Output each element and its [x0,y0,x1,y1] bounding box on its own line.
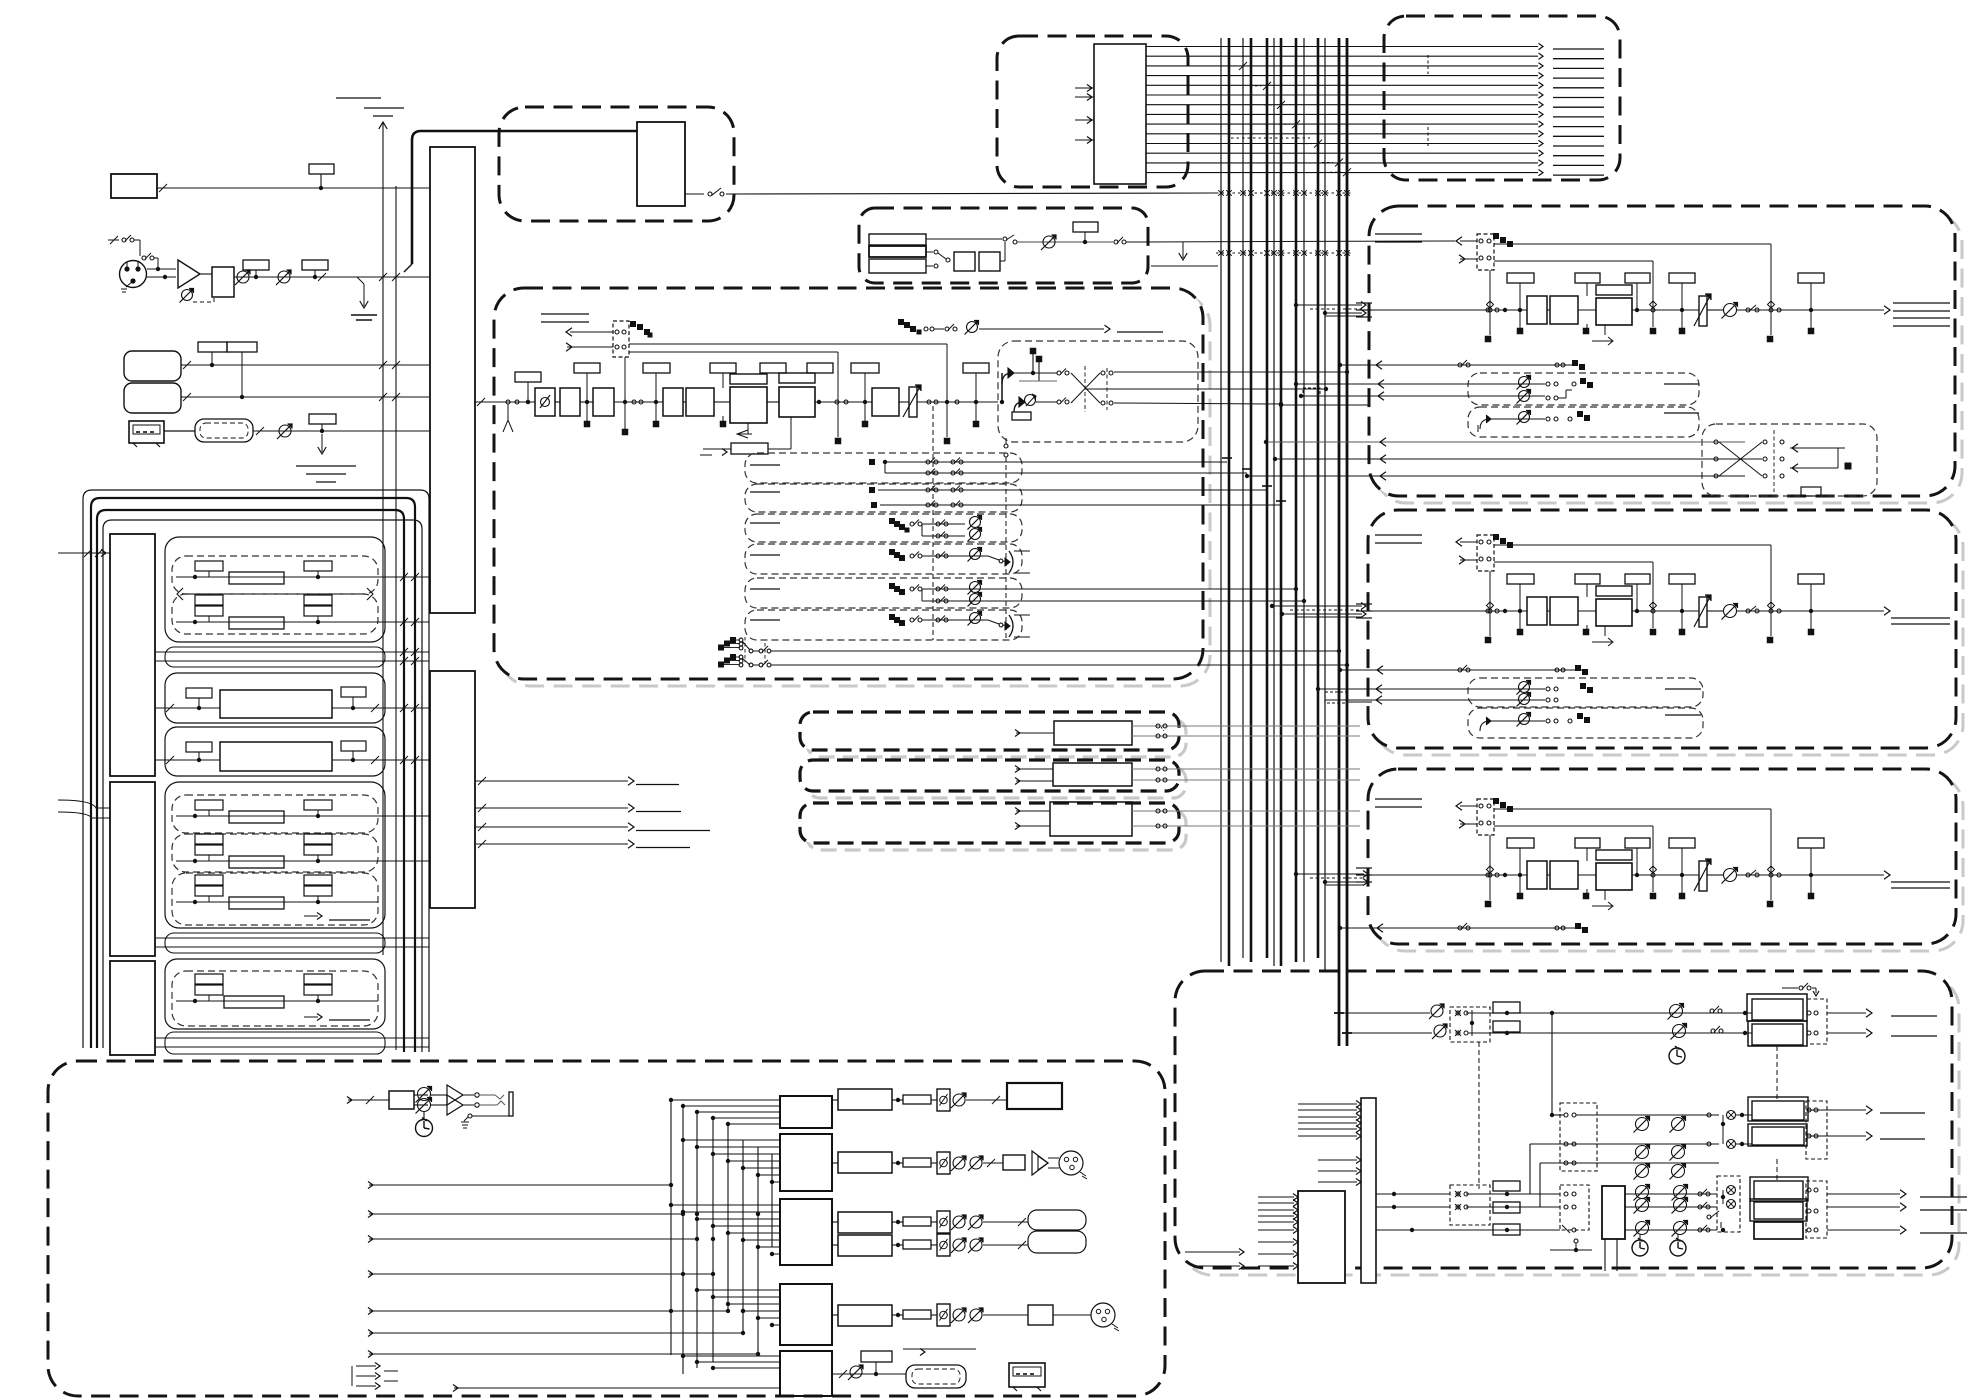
wire: thick feed to input module [412,131,637,264]
master: out sel dashed [1717,1176,1740,1232]
strip2: input stubs [1356,603,1372,605]
wire+pot: gain [234,276,430,278]
block: line input connector (top-left) [111,174,157,198]
strip1: out arrow [1884,306,1890,314]
strip2: post junction [1767,637,1774,644]
master: switch cluster dashed [1450,1007,1490,1042]
bus dotted mark 2 [1231,137,1310,139]
switch box SW1 above line [309,164,334,174]
block group: channel input module (top-left) [499,107,734,221]
strip1 aux dashed box B [1468,407,1699,437]
strip2: insert send arrow [1460,541,1477,543]
strip1 input wires from bus [1296,304,1362,306]
strip3: level pot [1724,869,1737,882]
strip3: value box 3 [1625,838,1650,848]
master: mon wire 2 [1530,1143,1719,1145]
wire loop C (thick) [97,510,404,1052]
strip2: EQ feedback [1604,626,1606,636]
strip2: chain wire [1372,610,1527,612]
strip2: value box 5 [1798,574,1824,584]
strip3: chain wire [1372,874,1527,876]
strip1 aux dashed box A [1468,373,1699,405]
pan wire B [1036,401,1057,403]
bus tap row A [1216,192,1352,194]
block group: DSP I/O (top-center) [997,36,1188,187]
group 5 box [165,959,385,1029]
block: dynamics [872,388,899,416]
input curve into group 4 [58,800,110,808]
strip1 auxA wires [1296,383,1545,385]
row4: phase box [937,1234,950,1256]
riser stubs into power amp block 2 [683,1139,780,1141]
block: EQ 2 [779,373,815,383]
bus dotted mark [1231,65,1262,67]
aux4 send wires [889,549,895,555]
row1: pots [953,1094,965,1106]
wire: usb out [253,430,429,432]
master: center tap junction [1550,1011,1554,1015]
thin link box T2 [165,933,385,953]
phones sleeve + ground [472,1115,511,1117]
block: comp A [663,388,683,416]
phones jack [509,1092,513,1116]
riser stubs into power amp block 3 [671,1204,780,1206]
row5: pots [953,1309,965,1321]
aux6 send wires [889,614,895,620]
pan A terminals [1030,348,1037,355]
wire: direct out R [771,664,1347,666]
aux3 send wires [889,518,895,524]
usb connector J3 [129,421,164,443]
block group: outputs to channels (top-right) [1384,16,1620,180]
strip2: insert riser [1489,571,1491,611]
strip3: out label lines [1891,881,1950,883]
strip3: value box 1 [1507,838,1534,848]
master: row switches [1698,1192,1702,1196]
aux send row 6 (light dashed) [745,610,1022,640]
master: L wire [1466,1012,1752,1014]
strip3: out arrow [1884,871,1890,879]
strip2 aux dashed box A [1468,678,1703,707]
wire: branch to ground w/ down arrow [357,277,364,284]
phones clock [416,1120,433,1137]
wire: insert bypass A [629,343,947,345]
value box: usb level [309,414,336,424]
FX value box [1073,222,1098,232]
strip2: bypass wire B [1494,561,1653,563]
value box 7 [851,363,879,373]
bar R3: group summing bar [110,961,155,1055]
master: mon sum nodes [1727,1111,1736,1120]
row3 speaker out [983,1221,1028,1223]
row5: wide block [838,1305,892,1326]
master: mon pots [1636,1118,1649,1131]
phones pots [414,1094,428,1096]
strip3: value box 5 [1798,838,1824,848]
strip1 aux row [1340,364,1575,366]
fader F1 [909,387,917,417]
amp A1: mic preamp [178,260,200,288]
channel top-right bus assign cluster [898,319,904,325]
strip1 auxB wires [1480,419,1490,429]
strip3: mute switch [1746,873,1750,877]
pfl switch below pan [1004,444,1008,448]
dash-dot tick marks [1427,55,1429,74]
bus join staircase marks [1239,62,1247,70]
aux send row 2 (light dashed) [745,484,1022,512]
strip3: fader [1699,861,1707,891]
master: mon select dashed box [1560,1103,1597,1171]
master: monitor switch top [1782,987,1798,989]
strip1: bypass wire A [1494,243,1771,245]
input arrows to U1 [1075,87,1094,89]
strip1: value box 5 [1798,273,1824,283]
pan wire A [1014,372,1057,374]
group5 EQ row [176,1000,378,1002]
strip2 aux dashed box B [1468,708,1703,738]
strip2: out label lines [1891,617,1950,619]
master: sum amp block [1602,1186,1625,1239]
strip1: out label lines [1893,302,1950,304]
strip3: insert return arrow [1460,823,1477,825]
master: R bus feed [1347,1032,1432,1034]
matrix out arrows [1790,447,1838,449]
aux2 out wires [1132,768,1360,770]
bar R1: group summing bar [110,534,155,776]
row4: pots [953,1239,965,1251]
group 1 box [165,537,385,642]
wire: insert bypass B [629,351,838,353]
strip3: post junction [1767,901,1774,908]
wire: output feed 1 [369,1184,671,1186]
bottom row6 feed arrow [454,1387,780,1389]
bar R2: group summing bar [110,782,155,956]
master: cpu input arrows [1258,1196,1294,1198]
group 3 box [165,727,385,776]
aux4 stub [750,554,780,556]
summing bar B2 (tall) [430,671,475,908]
strip1 return matrix box [1702,424,1877,496]
pan out upper [1114,371,1347,373]
input arrow into group 1 [58,552,110,554]
group4 out arrow [304,915,318,917]
aux send row 3 (light dashed) [745,514,1022,542]
row3: phase box [937,1211,950,1233]
pan small box [1012,412,1031,420]
junction after EQ [817,400,821,404]
strip3: bypass wire A [1494,808,1771,810]
FX routing [926,251,933,253]
strip1: value box 2 [1575,273,1600,283]
row2: pots [953,1157,965,1169]
wire loop D (thin inner) [103,520,422,1052]
row1: wide block [838,1089,892,1110]
master: L bus feed [1339,1012,1430,1014]
matrix crossings [1719,442,1762,476]
strip2: out arrow [1884,607,1890,615]
master: out block L [1747,994,1807,1021]
bus tap row B [1216,252,1352,254]
dashed wire: pan pfl vertical [1005,457,1007,640]
strip1: value box 3 [1625,273,1650,283]
group5 out arrow [304,1016,318,1018]
strip2: bypass wire A [1494,544,1771,546]
strip2: block 2 [1550,597,1578,625]
row2 xlr out [1059,1151,1083,1175]
block group: aux master 1 [807,719,1186,757]
strip2 aux row [1340,669,1586,671]
value box: input pad [515,372,541,382]
aux1 stub [750,464,780,466]
block: phase [535,388,555,416]
strip1: EQ block [1596,285,1632,295]
strip3: EQ block [1596,850,1632,860]
strip1: EQ feedback [1604,325,1606,335]
master: insert boxes [1493,1002,1520,1013]
FX block: stacked returns [869,234,926,245]
wire bundle U1 to top-right box [1146,46,1538,48]
strip2: insert cluster dashed [1477,535,1494,571]
row5 xlr [1091,1303,1115,1327]
wire: rca R [181,396,429,398]
wire: insert riser to chain [624,357,626,429]
aux master 1 block [1054,721,1132,745]
EQ feedback loop [747,423,749,434]
strip1: chain wire [1372,309,1527,311]
row2: phase box [937,1152,950,1174]
strip3: value box 4 [1669,838,1695,848]
power amp block 2 [780,1134,832,1191]
power amp block 1 [780,1096,832,1128]
FX down arrow [1182,242,1184,258]
rca input pair J2 [124,351,181,381]
strip2: block 1 [1527,597,1547,625]
phones level block [389,1091,414,1109]
junction: post fader [945,400,949,404]
row5: trim box [903,1310,931,1319]
block group: master section (bottom-right) [1182,978,1959,1275]
insert send arrow [570,331,613,333]
riser stubs into power amp block 4 [697,1289,780,1291]
riser stubs into power amp block 5 [683,1355,780,1357]
row4: trim box [903,1240,931,1249]
wire: group4 outs [378,815,429,817]
strip3 aux row [1340,927,1586,929]
strip2: value box 2 [1575,574,1600,584]
block: usb interface (dashed) [164,430,195,432]
FX out switch [1114,240,1118,244]
aux master 3 block [1050,802,1132,836]
wire: group1 out [378,576,429,578]
switch: pad [108,239,119,241]
junction dots on risers [681,1272,685,1276]
value box 5 [760,363,786,373]
row2: trim box [903,1158,931,1167]
aux1 send wires [869,459,875,465]
group4 EQ row C [176,901,378,903]
power amp block 5 [780,1351,832,1396]
wires: B2 outputs with arrows [475,780,628,782]
block U2: input selector [637,122,685,206]
master: row wires to matrix [1466,1193,1560,1195]
aux send row 4 (light dashed) [745,544,1022,574]
strip3: block 2 [1550,861,1578,889]
strip1: mute switch [1746,308,1750,312]
master: cpu long arrows [1185,1251,1240,1253]
value box 3 [643,363,670,373]
wire: direct out L [771,650,1339,652]
group1 arrows [177,588,183,600]
wire loop A (thin outer) [83,490,429,1052]
master: insert boxes rows [1493,1181,1520,1191]
wire: usb branch down arrow + ground [321,434,323,452]
master: rec out blocks [1750,1177,1808,1201]
strip2: insert return arrow [1460,559,1477,561]
strip2 input wires from bus [1272,605,1362,607]
strip2 auxB wires [1480,721,1490,731]
pot: trim [278,271,290,283]
wire: line input to summing bar [157,187,429,189]
row3: pots [953,1216,965,1228]
group1 EQ row B [176,621,378,623]
value box: trim switch [302,260,328,270]
master: mon wire 3 [1540,1162,1719,1164]
strip2: value box 3 [1625,574,1650,584]
strip3 input wires from bus [1296,873,1364,875]
riser stubs into power amp block 1 [671,1099,780,1101]
row3: wide block [838,1212,892,1233]
bus wires: mix bus lines [1220,38,1222,962]
FX level wire [1017,241,1113,243]
switch: pfl tap [927,400,931,404]
thin link box T3 [165,1032,385,1054]
master: rec dashed connector [1806,1181,1827,1238]
output row 6 (usb out) [832,1373,906,1375]
dashed ticks direct out [744,637,746,662]
strip1: value box 4 [1669,273,1695,283]
power amp block 4 [780,1284,832,1345]
master: level pots [1670,1005,1683,1018]
riser bundle verticals [670,1100,672,1355]
strip2: mute switch [1746,609,1750,613]
pan dashed verticals [1084,366,1086,412]
master: mon out arrows [1808,1109,1866,1111]
hop marks mic line [379,273,387,281]
pan junction riser [1000,400,1004,404]
wire: rca L [181,364,429,366]
master: out rows from bar [1376,1193,1450,1195]
row6 arrow line [903,1348,976,1350]
master: R wire [1468,1032,1752,1034]
pan crossing X [1071,373,1100,403]
master: below amp wires [1604,1239,1606,1271]
switch: module output [685,193,704,195]
bus wires: stereo L/R master bus (thick) [1338,38,1341,1046]
wire: output feed 6 [369,1332,743,1334]
master: ctrl bar (tall thin) [1361,1098,1376,1283]
phones out circles [463,1094,474,1096]
master: ctrl bar input arrows [1298,1103,1357,1105]
chassis symbol below input [507,404,509,420]
wire: output feed 4 [369,1273,713,1275]
master: input pots [1431,1005,1443,1017]
dashed wire: pfl vertical [932,406,934,640]
wire: FX out to strip 1 [1126,241,1455,242]
strip1: insert riser [1489,270,1491,310]
strip1: block 1 [1527,296,1547,324]
strip3: ground symbol [1375,798,1422,800]
row2 amp (double triangle) [1032,1151,1048,1175]
row1 end block [1007,1083,1062,1109]
group4 EQ row B [176,860,378,862]
wire: vertical riser 2 [395,186,397,1050]
row1: phase box [937,1089,950,1111]
wire: vertical riser with up arrow [382,122,384,955]
strip2: value box 4 [1669,574,1695,584]
pan pot A (curved arrow) [1002,373,1012,384]
master: out dashed connector [1807,999,1827,1044]
mic input XLR J1 [120,261,147,288]
block group: stereo channel strip 3 (right) [1375,776,1963,951]
row4: wide block [838,1235,892,1256]
strip3: block 1 [1527,861,1547,889]
strip3: insert riser [1489,835,1491,875]
group1 EQ row A [176,576,378,578]
strip3: bypass wire B [1494,825,1653,827]
strip1: insert send arrow [1460,240,1477,242]
FX block A [954,252,975,271]
summing bar B1 (tall) [430,147,475,613]
block: comp B [686,388,714,416]
master: matrix sel dashed box [1560,1185,1589,1230]
group2 delay block [220,690,332,718]
bottom-left misc arrows [356,1365,376,1367]
block U1: DSP (top-center) [1094,44,1146,184]
master: gains [1625,1193,1717,1195]
row1: trim box [903,1095,931,1104]
strip1: fader [1699,296,1707,326]
strip3: input stubs [1356,867,1372,869]
group4 EQ row A [176,815,378,817]
direct out cluster [730,637,736,643]
aux send row 1 (light dashed) [745,453,1022,483]
master: out arrows [1827,1012,1866,1014]
strip1: ground symbol [1375,233,1422,235]
strip2: EQ block [1596,586,1632,596]
block: HPF [212,267,234,297]
switch: phantom [142,256,146,260]
strip1: level pot [1724,304,1737,317]
group 2 box [165,673,385,723]
strip1: bypass wire B [1494,260,1653,262]
master: mon wire 1 [1576,1114,1719,1116]
strip3: value box 2 [1575,838,1600,848]
strip3: insert cluster dashed [1477,799,1494,835]
group3 delay block [220,742,332,771]
insert return arrow [567,346,613,348]
block group: aux master 3 [807,810,1186,850]
strip3: EQ feedback [1604,890,1606,900]
wire: channel input from bar B1 [475,401,535,403]
block group: FX return (mid) [859,208,1148,283]
aux2 send wires [869,487,875,493]
row5: phase box [937,1304,950,1326]
thin link box T1 [165,647,385,667]
switch boxes above rca [198,342,227,352]
wire loop B (thick) [91,498,415,1052]
strip2: ground symbol [1375,534,1422,536]
row2 booster box [1003,1155,1025,1170]
